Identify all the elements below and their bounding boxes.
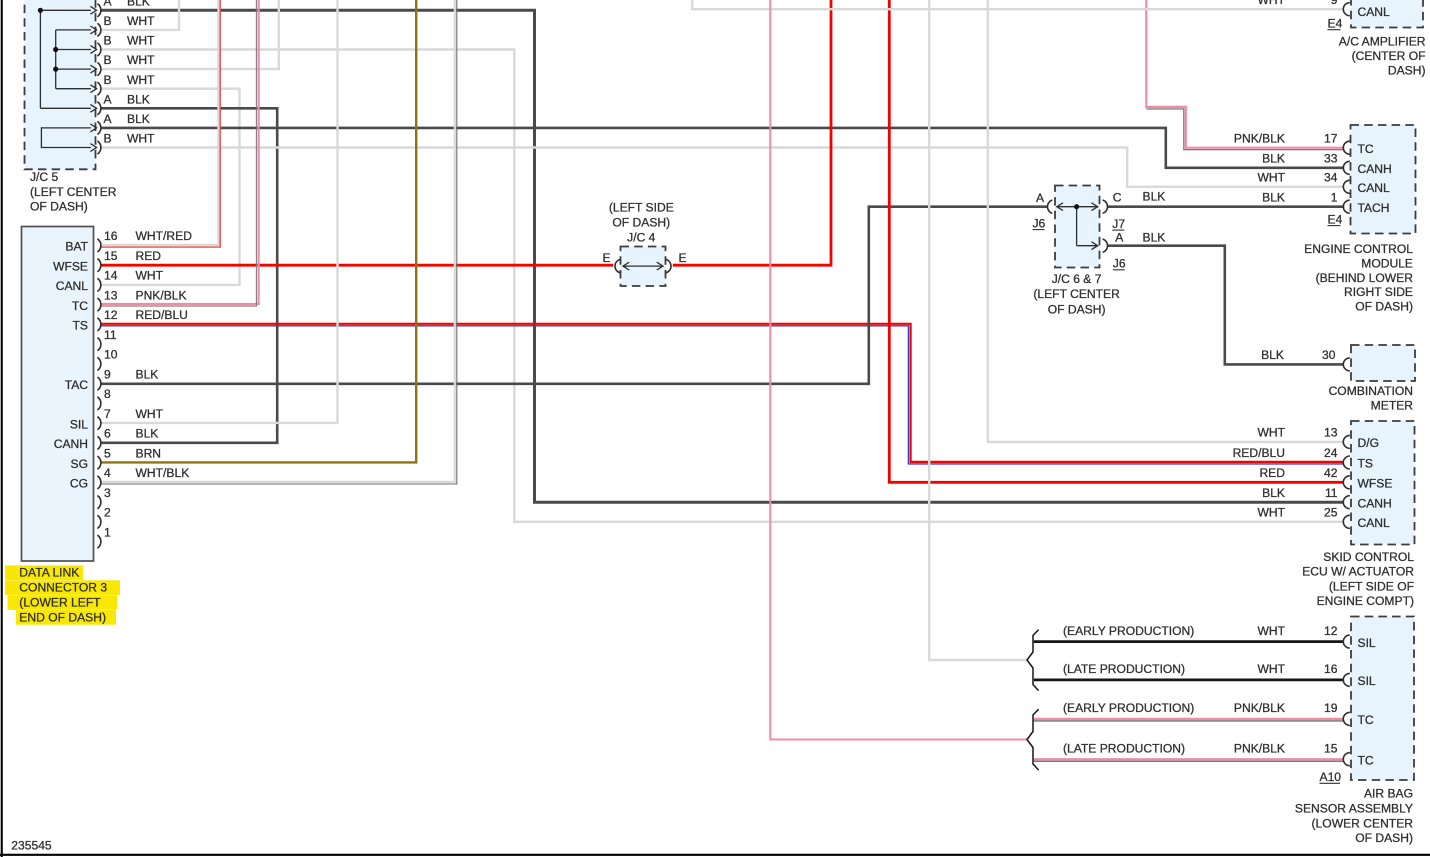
wire BLK CANH bus J/C5-A row7 to ECM CANH pin 33 xyxy=(101,128,1344,168)
svg-text:D/G: D/G xyxy=(1358,436,1380,450)
svg-text:7: 7 xyxy=(104,407,111,421)
svg-text:DASH): DASH) xyxy=(1388,64,1426,78)
svg-text:B: B xyxy=(104,132,112,146)
svg-text:WHT: WHT xyxy=(127,53,155,67)
wire BLK CANH bus J/C5-A to Skid Control CANH pin 11 xyxy=(101,10,1344,502)
svg-text:WHT/BLK: WHT/BLK xyxy=(136,466,190,480)
svg-text:WHT: WHT xyxy=(127,132,155,146)
svg-text:J6: J6 xyxy=(1113,257,1126,271)
svg-text:CANL: CANL xyxy=(1358,516,1391,530)
wire PNK/BLK (early production) to Air Bag TC pin 19 xyxy=(1034,718,1344,720)
svg-text:24: 24 xyxy=(1324,446,1338,460)
svg-text:BRN: BRN xyxy=(136,446,162,460)
J/C 6 and 7 internal junction xyxy=(1057,206,1097,208)
svg-text:OF DASH): OF DASH) xyxy=(612,216,670,230)
svg-text:A: A xyxy=(104,92,113,106)
svg-text:BLK: BLK xyxy=(1262,190,1285,204)
wire BLK J/C7 pin C to ECM TACH pin 1 xyxy=(1107,205,1344,208)
svg-text:1: 1 xyxy=(104,525,111,539)
svg-text:42: 42 xyxy=(1324,466,1338,480)
DLC3 caption highlight xyxy=(5,565,83,580)
wire PNK/BLK (late production) to Air Bag TC pin 15 xyxy=(1034,758,1344,760)
svg-text:J/C 6 & 7: J/C 6 & 7 xyxy=(1052,272,1102,286)
svg-text:WHT: WHT xyxy=(136,407,164,421)
svg-text:30: 30 xyxy=(1322,348,1336,362)
svg-text:5: 5 xyxy=(104,446,111,460)
svg-text:TAC: TAC xyxy=(65,378,89,392)
svg-text:OF DASH): OF DASH) xyxy=(1355,831,1413,845)
svg-text:A: A xyxy=(104,0,113,8)
svg-text:WHT: WHT xyxy=(1257,505,1285,519)
svg-text:END OF DASH): END OF DASH) xyxy=(19,610,106,624)
svg-text:OF DASH): OF DASH) xyxy=(1355,300,1413,314)
svg-text:AIR BAG: AIR BAG xyxy=(1364,787,1413,801)
svg-text:J6: J6 xyxy=(1033,216,1046,230)
svg-text:11: 11 xyxy=(1325,486,1338,500)
svg-text:B: B xyxy=(104,34,112,48)
svg-text:WFSE: WFSE xyxy=(53,259,88,273)
Skid Control ECU connector box xyxy=(1351,421,1415,545)
Combination Meter pin 30 xyxy=(1343,358,1349,371)
brace early/late production SIL xyxy=(1027,630,1039,691)
wire PNK from top to Air Bag TC brace xyxy=(770,0,1027,740)
junction connector J/C 4 box xyxy=(621,247,666,287)
svg-text:16: 16 xyxy=(1324,662,1338,676)
svg-text:235545: 235545 xyxy=(11,839,52,853)
svg-text:(LEFT CENTER: (LEFT CENTER xyxy=(1033,287,1120,301)
svg-text:BLK: BLK xyxy=(136,427,159,441)
svg-text:19: 19 xyxy=(1324,701,1338,715)
svg-text:CANH: CANH xyxy=(1358,162,1392,176)
svg-text:25: 25 xyxy=(1324,505,1338,519)
wire RED DLC3 pin 15 WFSE to J/C4 pin E xyxy=(101,264,614,267)
junction connector J/C 5 box xyxy=(25,0,96,169)
wire RED J/C4 pin E right up offpage xyxy=(673,0,831,265)
svg-text:BLK: BLK xyxy=(127,0,150,8)
svg-text:3: 3 xyxy=(104,486,111,500)
svg-text:PNK/BLK: PNK/BLK xyxy=(1234,701,1285,715)
svg-text:CANL: CANL xyxy=(56,279,89,293)
svg-text:PNK/BLK: PNK/BLK xyxy=(1234,131,1285,145)
wire WHT/RED DLC3 pin 16 BAT up offpage xyxy=(101,0,219,245)
svg-text:WHT: WHT xyxy=(1257,426,1285,440)
svg-text:METER: METER xyxy=(1371,398,1414,412)
wire RED from top to Skid Control WFSE pin 42 xyxy=(889,0,1344,482)
wire BLK J/C5-A row6 to DLC3 pin 6 CANH xyxy=(101,108,278,443)
wire WHT from J/C5-B row2 up offpage xyxy=(101,0,179,30)
wire PNK/BLK DLC3 pin 13 TC up offpage xyxy=(101,0,259,304)
ECM pins TC CANH CANL TACH xyxy=(1343,141,1349,154)
svg-text:11: 11 xyxy=(104,328,117,342)
wire WHT J/C5-B row5 to DLC3 pin 14 CANL xyxy=(101,89,240,285)
svg-text:(LATE PRODUCTION): (LATE PRODUCTION) xyxy=(1063,741,1185,755)
svg-text:A: A xyxy=(1036,191,1045,205)
J/C 6 and 7 pin arcs xyxy=(1047,200,1052,213)
svg-text:WFSE: WFSE xyxy=(1358,477,1393,491)
svg-text:12: 12 xyxy=(104,308,118,322)
svg-text:33: 33 xyxy=(1324,151,1338,165)
svg-text:SIL: SIL xyxy=(70,417,88,431)
Combination Meter connector box xyxy=(1351,345,1415,381)
connector DLC3 box xyxy=(22,227,94,562)
svg-text:E4: E4 xyxy=(1328,212,1343,226)
Engine Control Module connector box xyxy=(1351,125,1416,234)
J/C 5 pin arrows and arcs xyxy=(90,6,96,14)
svg-text:CANL: CANL xyxy=(1358,181,1391,195)
svg-text:(EARLY PRODUCTION): (EARLY PRODUCTION) xyxy=(1063,701,1194,715)
svg-text:CANL: CANL xyxy=(1358,5,1391,19)
svg-text:WHT: WHT xyxy=(1257,662,1285,676)
svg-text:BLK: BLK xyxy=(1143,231,1166,245)
svg-text:SIL: SIL xyxy=(1358,636,1376,650)
wire BLK DLC3 pin 9 TAC to J/C6 pin A xyxy=(101,207,1048,384)
svg-text:(LEFT SIDE OF: (LEFT SIDE OF xyxy=(1329,579,1414,593)
svg-text:RED: RED xyxy=(1259,466,1285,480)
svg-text:CANH: CANH xyxy=(54,437,88,451)
wire BRN DLC3 pin 5 SG up offpage xyxy=(101,0,417,462)
brace early/late production TC xyxy=(1027,709,1039,770)
svg-text:OF DASH): OF DASH) xyxy=(1048,303,1106,317)
Air Bag Sensor connector box xyxy=(1351,617,1414,781)
svg-text:A: A xyxy=(104,112,113,126)
wire BLK (late production) to Air Bag SIL pin 16 xyxy=(1034,679,1344,682)
svg-text:15: 15 xyxy=(104,249,118,263)
svg-text:12: 12 xyxy=(1324,624,1338,638)
svg-text:J/C 5: J/C 5 xyxy=(30,170,59,184)
J/C 5 internal link row7-row8 xyxy=(41,128,91,148)
svg-text:16: 16 xyxy=(104,229,118,243)
svg-text:WHT: WHT xyxy=(127,34,155,48)
wire BLK (early production) to Air Bag SIL pin 12 xyxy=(1034,640,1344,643)
svg-text:TC: TC xyxy=(72,299,88,313)
svg-text:SIL: SIL xyxy=(1358,674,1376,688)
J/C 4 pin E arcs and internal arrow xyxy=(615,259,620,272)
J/C 5 internal A-side bus row1-row6 xyxy=(39,10,41,108)
svg-text:6: 6 xyxy=(104,427,111,441)
wire RED/BLU DLC3 pin 12 TS to Skid Control TS pin 24 xyxy=(101,324,1344,462)
svg-text:WHT: WHT xyxy=(1257,0,1285,7)
svg-text:WHT: WHT xyxy=(127,73,155,87)
svg-text:10: 10 xyxy=(104,348,118,362)
wire WHT DLC3 pin 7 SIL up offpage xyxy=(101,0,338,423)
wire WHT CANL bus J/C5-B to Skid Control CANL pin 25 xyxy=(101,50,1344,522)
DLC3 pin arcs 16..1 xyxy=(97,239,100,252)
svg-text:4: 4 xyxy=(104,466,111,480)
A/C Amplifier pin 9 CANL xyxy=(1343,3,1349,16)
svg-text:TS: TS xyxy=(73,319,88,333)
svg-text:J7: J7 xyxy=(1112,217,1125,231)
svg-text:B: B xyxy=(104,73,112,87)
page bottom border xyxy=(0,854,1430,856)
svg-text:E: E xyxy=(679,251,687,265)
svg-text:9: 9 xyxy=(104,367,111,381)
svg-text:(LOWER LEFT: (LOWER LEFT xyxy=(19,596,101,610)
A/C Amplifier connector box xyxy=(1351,0,1423,28)
svg-text:(LEFT SIDE: (LEFT SIDE xyxy=(609,201,674,215)
svg-text:(LATE PRODUCTION): (LATE PRODUCTION) xyxy=(1063,662,1185,676)
svg-text:E: E xyxy=(603,251,611,265)
svg-text:MODULE: MODULE xyxy=(1361,256,1413,270)
svg-text:TS: TS xyxy=(1358,457,1373,471)
svg-text:SG: SG xyxy=(71,457,88,471)
svg-text:WHT/RED: WHT/RED xyxy=(136,229,193,243)
svg-text:17: 17 xyxy=(1324,131,1338,145)
svg-text:A10: A10 xyxy=(1320,770,1342,784)
svg-text:E4: E4 xyxy=(1328,16,1343,30)
svg-text:ECU W/ ACTUATOR: ECU W/ ACTUATOR xyxy=(1302,565,1414,579)
svg-text:(LEFT CENTER: (LEFT CENTER xyxy=(30,185,117,199)
wire WHT from top to Air Bag SIL brace xyxy=(929,0,1027,660)
svg-text:1: 1 xyxy=(1331,190,1338,204)
svg-text:34: 34 xyxy=(1324,170,1338,184)
svg-text:SENSOR ASSEMBLY: SENSOR ASSEMBLY xyxy=(1295,801,1413,815)
svg-text:COMBINATION: COMBINATION xyxy=(1329,384,1413,398)
Skid Control pins D/G TS WFSE CANH CANL xyxy=(1343,435,1349,448)
svg-text:(LOWER CENTER: (LOWER CENTER xyxy=(1312,816,1414,830)
svg-text:9: 9 xyxy=(1331,0,1338,7)
svg-text:RED/BLU: RED/BLU xyxy=(1233,446,1285,460)
svg-text:BLK: BLK xyxy=(127,92,150,106)
wire BLK J/C6 pin A to Combination Meter pin 30 xyxy=(1107,246,1344,365)
wire PNK/BLK from top to ECM TC pin 17 xyxy=(1146,0,1344,148)
svg-text:RED: RED xyxy=(136,249,162,263)
svg-text:B: B xyxy=(104,14,112,28)
svg-text:RIGHT SIDE: RIGHT SIDE xyxy=(1344,285,1413,299)
svg-text:ENGINE CONTROL: ENGINE CONTROL xyxy=(1304,242,1413,256)
junction connector J/C 6 and 7 box xyxy=(1055,186,1100,268)
wire WHT from top to A/C Amplifier CANL pin 9 xyxy=(692,0,1344,9)
svg-text:PNK/BLK: PNK/BLK xyxy=(136,288,187,302)
svg-text:WHT: WHT xyxy=(1257,624,1285,638)
wire WHT CANL bus J/C5-B row8 to ECM CANL pin 34 xyxy=(101,148,1344,187)
svg-text:J/C 4: J/C 4 xyxy=(627,231,656,245)
svg-text:A: A xyxy=(1115,231,1124,245)
wire WHT from top to Skid Control D/G pin 13 xyxy=(988,0,1344,442)
svg-text:15: 15 xyxy=(1324,741,1338,755)
svg-text:TC: TC xyxy=(1358,142,1374,156)
svg-text:14: 14 xyxy=(104,269,118,283)
svg-text:BLK: BLK xyxy=(1262,151,1285,165)
svg-text:WHT: WHT xyxy=(136,269,164,283)
svg-text:13: 13 xyxy=(104,288,118,302)
svg-text:TACH: TACH xyxy=(1358,201,1390,215)
svg-text:BLK: BLK xyxy=(127,112,150,126)
svg-text:WHT: WHT xyxy=(127,14,155,28)
svg-text:13: 13 xyxy=(1324,426,1338,440)
svg-text:OF DASH): OF DASH) xyxy=(30,200,88,214)
page left border xyxy=(1,0,3,857)
svg-text:ENGINE COMPT): ENGINE COMPT) xyxy=(1317,594,1414,608)
svg-text:A/C AMPLIFIER: A/C AMPLIFIER xyxy=(1339,35,1426,49)
svg-text:B: B xyxy=(104,53,112,67)
svg-text:(EARLY PRODUCTION): (EARLY PRODUCTION) xyxy=(1063,624,1194,638)
svg-text:BLK: BLK xyxy=(1261,348,1284,362)
svg-text:WHT: WHT xyxy=(1257,170,1285,184)
wire WHT/BLK DLC3 pin 4 CG up offpage xyxy=(101,0,455,482)
svg-text:(BEHIND LOWER: (BEHIND LOWER xyxy=(1316,271,1414,285)
svg-text:BLK: BLK xyxy=(1143,190,1166,204)
svg-text:(CENTER OF: (CENTER OF xyxy=(1352,49,1426,63)
svg-text:PNK/BLK: PNK/BLK xyxy=(1234,741,1285,755)
svg-text:RED/BLU: RED/BLU xyxy=(136,308,188,322)
svg-text:CANH: CANH xyxy=(1358,496,1392,510)
svg-text:2: 2 xyxy=(104,506,111,520)
svg-text:C: C xyxy=(1113,191,1122,205)
J/C 5 internal B-side bus row2-row5 xyxy=(55,30,57,89)
svg-text:CG: CG xyxy=(70,477,88,491)
svg-text:TC: TC xyxy=(1358,713,1374,727)
svg-text:SKID CONTROL: SKID CONTROL xyxy=(1323,550,1414,564)
svg-text:CONNECTOR 3: CONNECTOR 3 xyxy=(19,581,107,595)
Air Bag Sensor pins SIL SIL TC TC xyxy=(1343,635,1349,648)
svg-text:BLK: BLK xyxy=(136,367,159,381)
svg-text:BLK: BLK xyxy=(1262,486,1285,500)
svg-text:DATA LINK: DATA LINK xyxy=(19,566,79,580)
svg-text:8: 8 xyxy=(104,387,111,401)
svg-text:BAT: BAT xyxy=(65,240,88,254)
svg-text:TC: TC xyxy=(1358,753,1374,767)
wire WHT from J/C5-B row4 up offpage xyxy=(101,0,279,69)
